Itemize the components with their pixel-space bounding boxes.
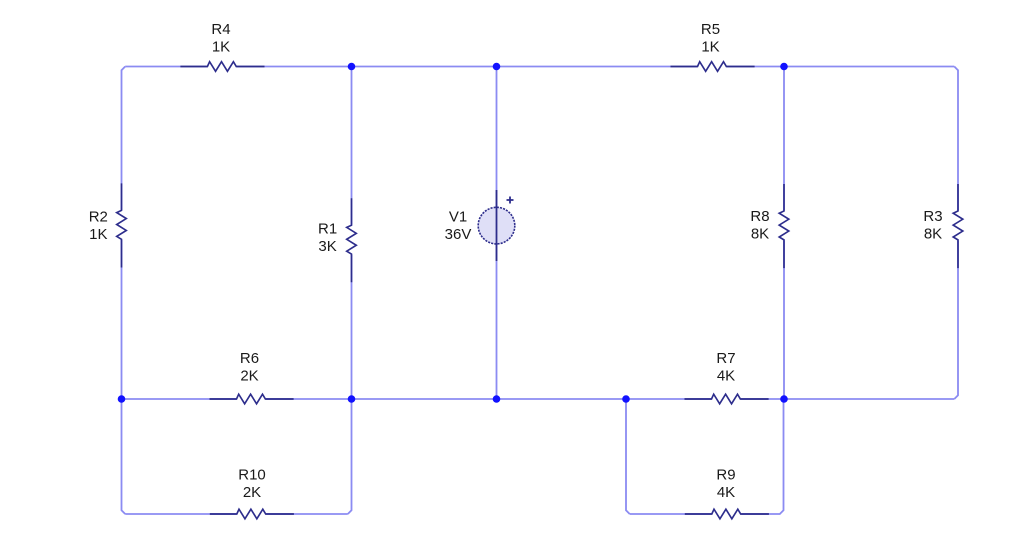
resistor R1 symbol	[347, 198, 357, 282]
wire R9 loop left side	[626, 399, 630, 514]
svg-text:R4: R4	[211, 21, 230, 38]
svg-text:1K: 1K	[212, 39, 230, 56]
node dot mid rail at R9 left	[622, 395, 630, 403]
svg-text:2K: 2K	[240, 368, 258, 385]
svg-text:1K: 1K	[89, 226, 107, 243]
node dot mid rail at R8 column	[780, 395, 788, 403]
node dot top of R8 column	[780, 63, 788, 71]
svg-text:8K: 8K	[751, 226, 769, 243]
svg-text:4K: 4K	[717, 368, 735, 385]
resistor R2 symbol	[117, 183, 127, 267]
svg-text:R5: R5	[701, 21, 720, 38]
wire R10 bottom rail	[125, 513, 348, 515]
svg-text:4K: 4K	[717, 484, 735, 501]
svg-text:1K: 1K	[701, 39, 719, 56]
wire top rail	[125, 66, 954, 68]
svg-text:3K: 3K	[318, 238, 336, 255]
node dot top of R1 column	[348, 63, 356, 71]
wire middle rail	[122, 398, 955, 400]
wire column V1 branch	[496, 67, 498, 400]
node dot top of V1 column	[493, 63, 501, 71]
svg-text:R7: R7	[716, 350, 735, 367]
wire R9 bottom rail and right side	[630, 399, 784, 514]
svg-text:R1: R1	[318, 221, 337, 238]
svg-text:2K: 2K	[243, 484, 261, 501]
svg-text:R8: R8	[750, 208, 769, 225]
resistor R9 symbol	[685, 509, 769, 519]
wire right column (R3 branch with rounded corners)	[954, 67, 958, 400]
svg-text:36V: 36V	[445, 226, 472, 243]
wire left column (node between R4/R2 top loop, with rounded corners)	[122, 67, 126, 515]
resistor R10 symbol	[210, 509, 294, 519]
svg-text:R3: R3	[923, 208, 942, 225]
resistor R7 symbol	[685, 394, 769, 404]
wire R10 loop right side	[348, 399, 352, 514]
resistor R5 symbol	[671, 62, 755, 72]
resistor R4 symbol	[180, 62, 264, 72]
svg-text:V1: V1	[449, 209, 467, 226]
svg-text:R9: R9	[716, 467, 735, 484]
wire column R1 branch	[351, 67, 353, 400]
V1 plus sign	[507, 197, 514, 204]
svg-text:R10: R10	[238, 467, 266, 484]
resistor R8 symbol	[779, 184, 789, 268]
resistor R3 symbol	[953, 184, 963, 268]
node dot mid rail at R2 column	[118, 395, 126, 403]
svg-text:8K: 8K	[924, 226, 942, 243]
svg-text:R2: R2	[89, 209, 108, 226]
svg-text:R6: R6	[240, 350, 259, 367]
resistor body masks	[207, 60, 237, 73]
resistor R6 symbol	[210, 394, 294, 404]
voltage source V1	[478, 190, 515, 261]
node dot mid rail at V1 column	[493, 395, 501, 403]
wire column R8 branch	[783, 67, 785, 400]
node dot mid rail at R1 column	[348, 395, 356, 403]
